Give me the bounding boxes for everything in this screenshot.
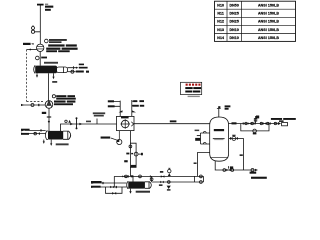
svg-text:N11: N11 [217,12,224,16]
label E1 name above [44,62,58,64]
reducer wedges on reactor risers [119,110,136,112]
instrument bubble beside K1 label [45,39,49,43]
wire E2 riser [132,176,134,181]
relief valve small at V2 top line [68,120,71,123]
reactor R1 rotor circle with cross [121,120,129,128]
orifice dots [76,117,78,119]
bowtie on bottom header [122,175,124,177]
bowtie bottom header lower [161,175,165,178]
svg-text:N10: N10 [217,4,224,8]
instrument bubble on K1 outlet [36,56,40,60]
label right of column base [131,165,136,167]
bowtie drain branch [160,181,164,184]
wire manifold lower line [152,181,204,183]
valve circle on drain branch with funnel [168,181,171,184]
label bar above manifold [160,171,163,173]
stamp line3 text [185,91,192,93]
valve circle on bottom header [125,175,128,178]
instrument TI bubble lower [31,30,34,33]
valve circles at manifold right [200,175,203,178]
drum V2 left feed line upper [25,129,46,131]
node suction tick [38,104,40,106]
wire pump suction from left [22,104,46,106]
wire E1 tube outlet top right [68,66,77,69]
valve circle [139,175,142,178]
wire riser to separator nozzle [198,153,210,177]
svg-text:N12: N12 [217,20,224,24]
wire pump discharge down to drum V2 [48,108,50,131]
label separator name strip text done; flare label [218,106,220,108]
drum V2 shell dark body [48,131,63,140]
relief valve triangle on bypass [168,173,171,176]
node dot on discharge [48,121,50,123]
node tick left of LCV drop [240,154,243,156]
loop valve stub tick [141,153,143,156]
arrow to offplot connector [278,122,281,125]
label static mixer text [93,112,105,114]
label right of E1 downcomer [52,81,57,83]
svg-text:DN25: DN25 [229,20,238,24]
label E2 feed arrows and text [91,182,94,184]
wire vent stub with flag [255,116,257,124]
node ticks on gas header [243,122,270,124]
node ticks around LCV [231,137,238,139]
wire separator gas outlet header [229,123,279,125]
wire manifold right connector [203,176,205,182]
bypass valve actuator blob [253,133,257,135]
wire separator bottom outlet [215,161,256,170]
wire signal branch left of compressor [27,49,37,51]
wire feed line vertical into compressor [39,5,41,45]
instrument bubble quadrant dark [117,139,120,142]
drum V2 left feed line lower [25,133,46,135]
svg-text:DN50: DN50 [229,4,238,8]
wire E2 left feed upper [92,182,127,184]
wire gas header bypass loop [241,124,269,131]
wire E2 bypass loop below [106,187,123,193]
arrowhead bottom outlet right [255,169,258,171]
label left arrow text at K1 [23,43,31,45]
funnel drain symbol [167,186,171,189]
node battery-limit tick top [37,4,44,6]
node tick [38,133,40,135]
svg-text:ANSI 150LB: ANSI 150LB [258,12,279,16]
nozzle table grid [215,1,296,41]
label above bottom header [131,165,136,167]
label V2 name below [56,143,69,145]
heat exchanger E1 channel right [57,67,68,73]
separator dark label strip [214,129,224,131]
label K1 tag text [49,39,67,41]
svg-text:ANSI 150LB: ANSI 150LB [258,36,279,40]
drum V2 right channel cap [63,131,71,139]
wire E1 drain stubs [37,73,54,77]
wire main product line to separator [134,123,210,125]
wire V2 drain stubs [44,140,51,144]
node gauge tap tick [197,135,201,137]
wire bottom header [114,175,150,177]
label FC on column [124,160,128,162]
control valve actuator stem [227,166,229,169]
label K1 outlet bubble text [41,57,47,59]
dark bar near funnel [159,184,163,186]
wire LCV drop to bottom line [243,138,245,170]
valve circle near end [251,169,254,172]
valve circles on gas header [245,122,248,125]
heat exchanger E1 left cap [34,66,36,73]
node tick [127,175,129,177]
pump P1 circle [45,101,53,109]
label reactor nozzle texts [108,100,114,102]
node tick on gauge drain riser [194,163,197,164]
label under reactor instrument [101,137,111,139]
spectacle blind box at right [282,123,288,126]
arrowhead E1 drains [36,75,55,79]
reactor dark label strip [121,117,129,119]
heat exchanger E1 shell dark body [35,66,57,74]
separator bottom tangent line [210,157,228,159]
wire V2 vapor outlet riser [61,124,117,131]
label E1 right lower text [76,71,84,73]
stamp red seal characters [186,84,188,86]
dark arrow under offplot label [279,120,284,122]
label top separator small tick text [195,130,200,132]
compressor K1 circle [37,44,44,51]
arrowhead V2 drains [43,141,53,146]
arrowhead pump suction [21,104,24,106]
node tick [102,182,104,184]
wire dashed signal line [27,50,44,102]
svg-text:N13: N13 [217,28,224,32]
stamp date text below [188,96,200,97]
wire manifold upper line [150,175,203,177]
wire static mixer tick and tap [96,119,98,125]
control valve LV circles [223,169,226,172]
reactor outlet chevron [131,122,133,126]
gauge glass dark blob [195,138,200,141]
valve circle ahead of V2 relief [65,120,67,122]
wire reactor top feed riser right [132,100,138,116]
wire instrument tap [33,25,40,32]
gauge bumps [203,132,206,145]
valve circle on suction [31,104,34,107]
label V2 feed arrows and text [21,129,24,131]
svg-text:DN10: DN10 [229,36,238,40]
dark nozzle tick on gas header [232,122,237,124]
signal dot [29,49,31,51]
svg-text:N14: N14 [217,36,224,40]
wire E1 shell outlet down to pump [48,73,50,101]
instrument bubble below reactor [117,139,122,144]
separator V3 shell [210,117,229,161]
top boundary label text [45,4,48,5]
label pump text right bold [56,95,66,97]
label main line DN tag [170,120,177,122]
LCV actuator [232,135,235,136]
vent flag on gas header [256,116,259,119]
valve circle on V2 lower feed [34,132,37,135]
exchanger E2 right channel [145,182,152,189]
drum V2 left cap [45,131,48,139]
svg-text:ANSI 150LB: ANSI 150LB [258,20,279,24]
instrument dark mark near bottom line left [230,166,233,169]
valve circle on E1 lower right line [71,70,74,73]
offplot label dark bar [271,118,282,120]
label pump tag [42,112,46,114]
exchanger E2 left cap [127,182,129,189]
node tick on V2 feed [40,129,42,131]
wire drop to E2 feed [113,176,115,187]
bowtie on separator bottom line [226,169,230,172]
column junction dark ticks [126,153,129,155]
node tick [115,186,117,188]
bowtie E2 bypass [112,192,116,195]
label E1 right top text [76,67,78,69]
wire E1 tube inlet lower right [68,71,76,73]
instrument PI bubble upper [32,27,35,30]
LCV valve circle [232,136,236,140]
wire manifold left connector [151,176,153,182]
node discharge tick [47,116,51,118]
valve circle on loop [134,152,138,156]
instrument bubble at pump label [52,95,55,98]
label K1 service text bold [48,44,64,46]
wire E2 bottom drain stub [130,189,132,192]
wire E2 left feed lower [92,186,127,188]
level gauge nozzles left [201,133,210,144]
wire reactor bottom main line down [129,131,131,177]
reactor R1 box [117,116,135,130]
relief valve PSV above upper line [168,169,171,172]
wire manifold cross connector [193,176,195,182]
wire K1 outlet down to exchanger [39,52,41,66]
svg-text:ANSI 150LB: ANSI 150LB [258,4,279,8]
separator level band [213,137,225,140]
stamp box border [181,82,202,94]
wire column side loop [130,143,136,167]
valve circle on column line [129,145,132,148]
valve circle on left connector [150,178,153,181]
label under E2 drain [136,191,150,193]
svg-text:DN25: DN25 [229,12,238,16]
arrowhead into reactor line [70,123,82,126]
bowtie E2 lower feed [110,186,114,189]
label under bottom outlet line [250,172,257,174]
svg-text:DN10: DN10 [229,28,238,32]
wire loop valve stub [138,153,142,155]
arrowhead E2 drain [129,191,131,194]
valve bowties dark [248,122,266,124]
svg-text:ANSI 150LB: ANSI 150LB [258,28,279,32]
orifice plate bar [76,118,78,129]
stamp line2 text [185,87,192,89]
wire reactor top feed riser left [110,101,121,117]
valve circle on bypass [253,129,257,133]
wire separator top flare stub [217,108,221,117]
LCV liquid letdown line from separator side [229,137,244,139]
exchanger E2 shell dark body [128,182,144,189]
